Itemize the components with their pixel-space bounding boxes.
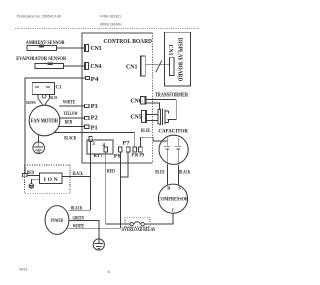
svg-text:BLACK: BLACK xyxy=(64,135,76,141)
svg-text:R: R xyxy=(167,185,171,190)
fan motor M1 xyxy=(29,105,60,136)
svg-text:CN1: CN1 xyxy=(126,64,138,70)
ambient sensor symbol xyxy=(27,46,57,51)
control board U1 outline xyxy=(82,33,153,163)
wire P8 neutral down to white xyxy=(119,152,121,228)
wire CN6 primary 2 xyxy=(146,103,160,109)
capacitor C2 xyxy=(159,135,188,164)
svg-text:WHITE: WHITE xyxy=(63,99,76,105)
svg-text:RY7: RY7 xyxy=(94,153,104,159)
svg-text:BLACK: BLACK xyxy=(71,205,83,211)
overload contact right xyxy=(141,222,144,225)
wire capacitor to compressor R (blue) xyxy=(166,164,168,185)
svg-text:CAPACITOR: CAPACITOR xyxy=(158,128,188,134)
svg-text:BLACK: BLACK xyxy=(179,170,191,176)
svg-text:ION: ION xyxy=(44,177,58,183)
connector CN4 xyxy=(84,62,88,69)
capacitor C1 box xyxy=(32,83,54,95)
connector P3 xyxy=(84,104,89,107)
svg-text:BLUE: BLUE xyxy=(155,170,165,176)
svg-text:6: 6 xyxy=(108,269,111,274)
svg-text:BLACK: BLACK xyxy=(73,171,83,177)
svg-text:P4: P4 xyxy=(91,77,99,83)
connector CN1 display board xyxy=(169,57,174,75)
wire CN5 secondary 1 xyxy=(146,114,155,116)
wire CN1 to display board xyxy=(145,64,169,66)
connector CN5 xyxy=(141,110,146,122)
wire ION red riser to P4 xyxy=(25,78,86,173)
svg-text:AMBIENT SENSOR: AMBIENT SENSOR xyxy=(26,40,66,46)
wire power white to overload junction xyxy=(66,227,120,229)
svg-text:TRANSFORMER: TRANSFORMER xyxy=(155,93,188,99)
wire P7 loop to P8 wire xyxy=(120,152,128,177)
connector P1 xyxy=(84,125,89,128)
wire capacitor to compressor S (black) xyxy=(177,164,179,185)
svg-text:CN5: CN5 xyxy=(131,114,142,120)
overload relay box xyxy=(125,218,150,227)
wire CN6 primary 1 xyxy=(146,99,176,101)
connector P8 xyxy=(119,147,123,152)
transformer primary loop xyxy=(168,100,177,120)
wire C1 to fan motor (blue stem) xyxy=(48,95,50,99)
connector P10 xyxy=(133,147,137,152)
wire power green to ground xyxy=(69,220,99,239)
svg-text:P7: P7 xyxy=(123,140,131,146)
overload contact left xyxy=(130,222,133,225)
svg-text:WIRING DIAGRAM: WIRING DIAGRAM xyxy=(100,22,122,26)
cable slash mark xyxy=(156,60,162,72)
svg-text:WHITE: WHITE xyxy=(73,223,85,229)
svg-text:C1: C1 xyxy=(56,85,62,91)
svg-text:09/14: 09/14 xyxy=(19,268,28,272)
svg-text:CN1: CN1 xyxy=(167,45,173,56)
svg-text:CN3: CN3 xyxy=(91,46,102,52)
svg-text:P3: P3 xyxy=(91,104,98,110)
connector P7 xyxy=(126,147,130,152)
svg-text:P1: P1 xyxy=(91,126,98,132)
fan motor shaft circle xyxy=(42,94,46,98)
ION generator dashed box xyxy=(25,165,70,193)
wire fan black to P10 riser xyxy=(53,132,134,134)
svg-text:CN4: CN4 xyxy=(91,64,102,70)
svg-text:RED: RED xyxy=(65,120,73,126)
svg-text:RED: RED xyxy=(107,168,115,174)
svg-text:BLUE: BLUE xyxy=(50,95,57,100)
wire fan white to P3 xyxy=(59,105,84,107)
svg-text:OVERLOAD RELAY: OVERLOAD RELAY xyxy=(122,227,156,233)
relay RY7 box xyxy=(87,140,113,154)
ground power cord xyxy=(93,239,104,250)
connector CN1 control board xyxy=(140,56,145,76)
svg-text:C: C xyxy=(172,207,175,212)
svg-text:GREEN: GREEN xyxy=(73,215,85,221)
overload bimetal bump xyxy=(133,222,141,224)
svg-text:FFRE-0833Q1: FFRE-0833Q1 xyxy=(100,14,121,18)
ION box xyxy=(39,173,62,184)
connector P2 xyxy=(84,116,89,119)
display board U2 outline xyxy=(165,32,191,86)
wire ambient sensor to CN3 xyxy=(57,47,85,49)
svg-text:COMPRESSOR: COMPRESSOR xyxy=(158,196,189,202)
wire P9 blue to capacitor xyxy=(140,137,167,147)
wire black net riser (relay pin3 to power black) xyxy=(90,141,92,210)
header rule xyxy=(15,28,199,30)
svg-text:BLUE: BLUE xyxy=(141,128,151,134)
svg-text:EVAPORATOR SENSOR: EVAPORATOR SENSOR xyxy=(16,56,67,62)
svg-text:3: 3 xyxy=(92,141,95,147)
wire red relay pin4 to overload xyxy=(106,152,130,224)
svg-text:CN6: CN6 xyxy=(131,98,142,104)
wire C1 to fan motor (brown stem) xyxy=(37,95,39,99)
evaporator sensor symbol xyxy=(35,63,64,68)
connector CN6 xyxy=(141,97,147,105)
fan motor mount V xyxy=(38,98,43,104)
compressor M2 xyxy=(158,184,187,213)
connector P9 xyxy=(139,147,143,152)
svg-text:P2: P2 xyxy=(91,116,98,122)
svg-text:P10 P9: P10 P9 xyxy=(132,153,145,159)
wire compressor C to overload xyxy=(144,213,173,224)
svg-text:YELLOW: YELLOW xyxy=(63,111,78,117)
wire ION black to black net xyxy=(62,176,91,178)
wire evaporator sensor to CN4 xyxy=(64,65,85,67)
svg-text:CONTROL BOARD: CONTROL BOARD xyxy=(104,38,153,45)
transformer T1 symbol xyxy=(156,103,160,124)
svg-text:BROWN: BROWN xyxy=(26,100,36,105)
svg-text:Publication No. 5995410-08: Publication No. 5995410-08 xyxy=(17,14,61,18)
power cord P1 xyxy=(45,206,69,235)
wire power black xyxy=(69,209,91,211)
wire fan red to P1 xyxy=(58,126,84,128)
wire pin to ION box xyxy=(27,174,40,176)
svg-text:FAN MOTOR: FAN MOTOR xyxy=(31,118,59,124)
ION connector pin xyxy=(23,173,27,176)
svg-text:DISPLAY BOARD: DISPLAY BOARD xyxy=(176,38,182,82)
ground fan motor xyxy=(38,134,40,142)
wire P10 to fan black xyxy=(134,133,136,147)
relay pin 3 xyxy=(89,136,92,141)
wire fan yellow to P2 xyxy=(59,117,84,119)
wire CN5 secondary 2 xyxy=(146,119,155,121)
svg-text:POWER: POWER xyxy=(51,218,64,224)
connector CN3 xyxy=(84,45,88,52)
ION emitter xyxy=(31,179,39,183)
connector P4 xyxy=(86,76,90,79)
